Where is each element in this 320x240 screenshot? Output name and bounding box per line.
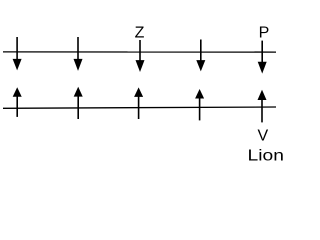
svg-text:V: V: [257, 127, 268, 144]
down arrow 4: [196, 40, 205, 72]
down arrow 1: [13, 37, 22, 70]
svg-text:Lion: Lion: [248, 147, 284, 164]
bottom rail line: [3, 107, 276, 108]
svg-text:P: P: [259, 24, 270, 41]
down arrow 2: [74, 37, 83, 71]
up arrow 3: [134, 87, 143, 119]
up arrow 5: [258, 90, 267, 123]
top rail line: [3, 51, 276, 53]
up arrow 4: [195, 89, 204, 120]
down arrow 3: [136, 40, 145, 72]
up arrow 1: [13, 87, 22, 117]
svg-text:Z: Z: [135, 25, 145, 42]
up arrow 2: [74, 87, 83, 119]
down arrow 5: [258, 41, 267, 74]
